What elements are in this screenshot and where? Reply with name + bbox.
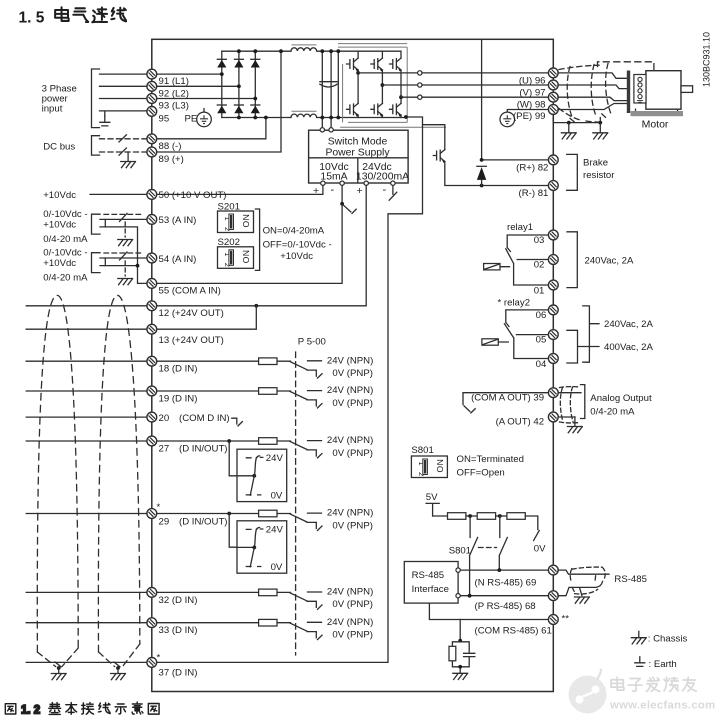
SMPS 10V common wire to terminal 55 <box>152 185 356 283</box>
svg-text:02: 02 <box>534 259 545 270</box>
SMPS 24V common switch stub <box>389 185 397 200</box>
analog input 54 return wire <box>100 264 139 268</box>
motor M <box>627 71 693 131</box>
terminal 29 D IN/OUT <box>147 509 157 519</box>
analog input 53 bracket <box>92 214 101 234</box>
svg-text:: Earth: : Earth <box>649 659 677 670</box>
rectifier leg 2 <box>234 49 243 119</box>
svg-text:06: 06 <box>536 310 547 321</box>
svg-text:53 (A IN): 53 (A IN) <box>159 215 197 226</box>
inverter leg V <box>371 51 384 117</box>
svg-text:*: * <box>157 502 161 513</box>
svg-text:54 (A IN): 54 (A IN) <box>159 254 197 265</box>
terminal 13 +24V OUT <box>147 324 157 334</box>
svg-text:(D IN/OUT): (D IN/OUT) <box>179 516 228 527</box>
terminal 02 relay1 <box>548 255 558 265</box>
svg-text:0/-10Vdc -: 0/-10Vdc - <box>43 248 87 259</box>
terminal 01 relay1 <box>548 280 558 290</box>
wire L1 to rectifier <box>152 72 224 76</box>
svg-text:ON=0/4-20mA: ON=0/4-20mA <box>263 226 325 237</box>
terminal 37 D IN <box>147 658 157 668</box>
PE 99 internal earth circle <box>500 110 553 127</box>
terminal 20 COM D IN <box>147 412 157 422</box>
svg-text:01: 01 <box>534 285 545 296</box>
wire 88 DC- tap <box>152 116 268 139</box>
relay1 common wire 01 <box>506 249 549 285</box>
terminal 06 relay2 <box>548 305 558 315</box>
svg-text:240Vac, 2A: 240Vac, 2A <box>604 319 653 330</box>
svg-text:+: + <box>357 185 363 197</box>
cable shield ground wire <box>553 114 607 139</box>
external wire to 27 <box>26 440 147 442</box>
PE 95 internal earth circle <box>197 109 212 127</box>
terminal 39 COM A OUT <box>548 388 558 398</box>
pullup resistor R3 <box>496 513 526 520</box>
external wire to 37 <box>26 661 147 663</box>
terminal 50 +10V OUT <box>147 190 157 200</box>
S801 termination switch B <box>499 516 507 570</box>
svg-text:(P RS-485) 68: (P RS-485) 68 <box>475 601 536 612</box>
wire 89 DC+ tap <box>152 49 283 152</box>
27 input circuit <box>152 435 373 459</box>
svg-text:(N RS-485) 69: (N RS-485) 69 <box>475 578 537 589</box>
terminal 53 A IN <box>147 215 157 225</box>
5V supply <box>426 492 439 516</box>
analog input 53 signal wire <box>100 213 147 227</box>
svg-text:DC bus: DC bus <box>43 142 75 153</box>
shield drain wires to chassis <box>37 644 139 680</box>
svg-text:240Vac, 2A: 240Vac, 2A <box>585 256 634 267</box>
svg-text:Brake: Brake <box>583 158 608 169</box>
analog input 54 bracket <box>92 253 101 273</box>
svg-text:130/200mA: 130/200mA <box>356 172 409 183</box>
svg-text:33 (D IN): 33 (D IN) <box>159 625 198 636</box>
svg-text:(COM RS-485) 61: (COM RS-485) 61 <box>475 626 552 637</box>
terminal 97 V <box>548 80 558 90</box>
svg-text:5V: 5V <box>426 492 438 503</box>
safe-stop / common rail <box>152 115 423 662</box>
motor wire W <box>558 97 627 100</box>
external wire to 12 <box>26 305 147 307</box>
terminal 91 L1 <box>147 69 157 79</box>
wire L3 to rectifier <box>152 97 257 101</box>
pullup resistor R2 <box>466 513 496 520</box>
svg-text:0/-10Vdc -: 0/-10Vdc - <box>43 209 87 220</box>
terminal 69 N RS-485 <box>548 565 558 575</box>
terminal 42 A OUT <box>548 412 558 422</box>
external wire to 29 <box>26 513 147 515</box>
svg-text:29: 29 <box>159 516 170 527</box>
svg-text:: Chassis: : Chassis <box>648 634 688 645</box>
analog input 53 shield to chassis <box>118 222 133 246</box>
svg-text:89 (+): 89 (+) <box>159 154 184 165</box>
svg-text:(W) 98: (W) 98 <box>517 100 546 111</box>
svg-text:12 (+24V OUT): 12 (+24V OUT) <box>159 308 224 319</box>
svg-text:(D IN/OUT): (D IN/OUT) <box>179 444 228 455</box>
20 COM D IN hook <box>232 418 243 426</box>
pullup resistor R1 <box>433 513 466 520</box>
svg-text:+10Vdc: +10Vdc <box>43 258 76 269</box>
svg-text:0/4-20 mA: 0/4-20 mA <box>43 273 88 284</box>
svg-text:(A OUT) 42: (A OUT) 42 <box>496 417 545 428</box>
27 mode select box <box>227 439 286 502</box>
svg-text:400Vac, 2A: 400Vac, 2A <box>604 342 653 353</box>
relay1 coil K1 <box>484 264 510 270</box>
terminal 95 PE <box>147 107 157 117</box>
analog output shield wires <box>558 385 585 433</box>
external wire to 20 <box>26 416 147 418</box>
svg-text:Power Supply: Power Supply <box>325 147 390 158</box>
0V pulldown branch <box>525 516 546 554</box>
terminal 61 COM RS-485 <box>548 615 558 625</box>
motor wire U <box>558 73 627 78</box>
terminal 68 P RS-485 <box>548 591 558 601</box>
external wire to 13 <box>26 328 147 330</box>
svg-text:32 (D IN): 32 (D IN) <box>159 595 198 606</box>
+10Vdc label and wire <box>43 190 147 201</box>
terminal 96 U <box>548 68 558 78</box>
svg-text:resistor: resistor <box>583 170 615 181</box>
svg-text:+10Vdc: +10Vdc <box>280 251 313 262</box>
svg-text:05: 05 <box>536 335 547 346</box>
svg-text:P 5-00: P 5-00 <box>298 336 326 347</box>
svg-text:(R-) 81: (R-) 81 <box>519 188 549 199</box>
svg-text:S801: S801 <box>411 445 433 456</box>
phase W output <box>401 95 553 99</box>
terminal 03 relay1 <box>548 230 558 240</box>
svg-text:1. 2: 1. 2 <box>21 705 40 717</box>
wire L3 external <box>100 98 148 100</box>
terminal 93 L3 <box>147 94 157 104</box>
svg-text:input: input <box>42 103 63 114</box>
svg-text:(U) 96: (U) 96 <box>519 75 546 86</box>
wire PE external <box>100 111 148 126</box>
svg-text:**: ** <box>562 614 570 625</box>
terminal 32 D IN <box>147 588 157 598</box>
29 input circuit <box>152 508 373 532</box>
relay1 NO wire 02 <box>517 259 548 261</box>
motor cable shield dashes <box>559 64 611 123</box>
svg-text:(R+) 82: (R+) 82 <box>516 162 548 173</box>
18 input circuit <box>152 355 373 379</box>
wire 61 COM <box>429 603 553 619</box>
relay1 NC wire 03 <box>507 235 548 252</box>
svg-text:50 (+10 V OUT): 50 (+10 V OUT) <box>159 190 227 201</box>
svg-text:130BC931.10: 130BC931.10 <box>702 32 712 87</box>
motor wire PE <box>558 104 627 110</box>
svg-text:-: - <box>383 184 387 196</box>
svg-text:0V: 0V <box>534 543 546 554</box>
wire L2 external <box>100 85 148 87</box>
svg-text:92 (L2): 92 (L2) <box>159 88 189 99</box>
DC choke bottom <box>291 111 317 117</box>
S801 termination switch A <box>470 516 478 596</box>
external wire to 18 <box>26 360 147 362</box>
svg-text:Switch Mode: Switch Mode <box>328 136 388 147</box>
EMC shield dashed outline over motor <box>598 62 654 70</box>
external wire to 33 <box>26 622 147 624</box>
svg-text:www.elecfans.com: www.elecfans.com <box>609 700 715 712</box>
12-13 jumper wire <box>152 306 256 329</box>
control cable shield loop B <box>98 295 139 652</box>
terminal 04 relay2 <box>548 354 558 364</box>
external wire to 32 <box>26 591 147 593</box>
brake freewheel diode <box>477 166 486 180</box>
svg-text:18 (D IN): 18 (D IN) <box>159 364 198 375</box>
RS-485 external cable <box>558 567 647 603</box>
wire 39 with hook <box>463 393 548 413</box>
3 phase bracket <box>92 69 100 128</box>
terminal 54 A IN <box>147 253 157 263</box>
svg-text:91 (L1): 91 (L1) <box>159 76 189 87</box>
DC bus wire 88 <box>100 135 148 142</box>
brake + feed from DC bus <box>480 40 554 186</box>
svg-text:(PE) 99: (PE) 99 <box>513 111 546 122</box>
svg-text:55 (COM A IN): 55 (COM A IN) <box>159 286 221 297</box>
terminal 82 R+ <box>548 155 558 165</box>
terminal 89 DC+ <box>147 147 157 157</box>
terminal 27 D IN/OUT <box>147 436 157 446</box>
svg-text:95: 95 <box>159 113 170 124</box>
brake chopper IGBT <box>423 125 554 188</box>
svg-text:PE: PE <box>185 113 198 124</box>
svg-text:03: 03 <box>534 235 545 246</box>
DC+ bus <box>222 50 400 52</box>
svg-text:0/4-20 mA: 0/4-20 mA <box>43 234 88 245</box>
terminal 92 L2 <box>147 81 157 91</box>
relay2 NO wire 05 <box>516 334 548 336</box>
analog input 53 labels <box>43 209 88 245</box>
terminal 18 D IN <box>147 356 157 366</box>
relay2 coil K2 <box>482 339 508 345</box>
19 input circuit <box>152 385 373 409</box>
DC bus bracket <box>92 136 100 155</box>
DC link capacitor <box>320 82 337 87</box>
svg-text:27: 27 <box>159 444 170 455</box>
DC link wire to inverter <box>336 49 340 119</box>
svg-text:Analog Output: Analog Output <box>590 393 652 404</box>
external wire to 19 <box>26 390 147 392</box>
svg-text:(V) 97: (V) 97 <box>519 87 545 98</box>
DC- bus <box>222 117 406 119</box>
svg-text:S801: S801 <box>449 545 471 556</box>
svg-text:13 (+24V OUT): 13 (+24V OUT) <box>159 335 224 346</box>
svg-text:* relay2: * relay2 <box>498 297 531 308</box>
relay1 rating bracket <box>567 232 634 288</box>
svg-text:OFF=Open: OFF=Open <box>457 468 505 479</box>
svg-text:0/4-20 mA: 0/4-20 mA <box>590 406 635 417</box>
terminal 05 relay2 <box>548 330 558 340</box>
svg-text:37 (D IN): 37 (D IN) <box>159 668 198 679</box>
analog input 54 shield to chassis <box>118 261 133 285</box>
svg-text:RS-485: RS-485 <box>412 570 445 581</box>
motor wire V <box>558 85 627 89</box>
relay2 common wire 04 <box>504 324 548 359</box>
svg-text:(COM D IN): (COM D IN) <box>179 413 230 424</box>
DC bus label <box>43 142 75 153</box>
SMPS +10V wire to terminal 50 <box>152 185 323 194</box>
relay2 NC wire 06 <box>506 310 549 327</box>
SMPS feed wires <box>320 49 333 126</box>
svg-text:(COM A OUT) 39: (COM A OUT) 39 <box>471 392 544 403</box>
svg-text:04: 04 <box>536 359 547 370</box>
phase U output <box>358 71 553 75</box>
S801 mechanical link <box>449 545 497 556</box>
relay2 inner rating bracket <box>567 330 654 363</box>
terminal 19 D IN <box>147 386 157 396</box>
rectifier leg 1 <box>217 51 226 117</box>
inverter leg W <box>390 51 403 117</box>
terminal 88 DC- <box>147 134 157 144</box>
SMPS +24V wire to terminal 12 <box>152 185 366 307</box>
phase V output <box>382 83 553 87</box>
svg-text:88 (-): 88 (-) <box>159 141 182 152</box>
terminal 12 +24V OUT <box>147 301 157 311</box>
svg-text:19 (D IN): 19 (D IN) <box>159 393 198 404</box>
wire L1 external <box>100 73 148 75</box>
relay2 outer rating bracket <box>583 306 654 362</box>
S201 DIP <box>218 211 254 233</box>
terminal 33 D IN <box>147 618 157 628</box>
P 5-00 programming group <box>296 336 326 655</box>
svg-text:1. 5: 1. 5 <box>19 10 45 27</box>
terminal 99 PE <box>548 105 558 115</box>
analog input 53 return wire <box>100 227 147 284</box>
svg-text:Interface: Interface <box>412 584 449 595</box>
wire 69 N <box>456 568 553 572</box>
rectifier leg 3 <box>251 49 260 119</box>
DC choke top <box>291 45 317 51</box>
svg-text:OFF=0/-10Vdc -: OFF=0/-10Vdc - <box>263 239 332 250</box>
inverter module frame <box>338 44 446 128</box>
svg-text:relay1: relay1 <box>507 222 533 233</box>
svg-text:+10Vdc: +10Vdc <box>43 190 76 201</box>
svg-text:ON=Terminated: ON=Terminated <box>457 454 524 465</box>
analog input 54 signal wire <box>100 252 147 266</box>
control cable shield loop A <box>37 295 78 652</box>
inverter leg U <box>347 51 360 117</box>
terminal 81 R- <box>548 181 558 191</box>
RC termination network <box>449 620 475 680</box>
32 input circuit <box>152 587 373 611</box>
wire 68 P <box>456 594 553 598</box>
29 mode select box <box>227 512 286 574</box>
S202 DIP <box>218 247 254 268</box>
33 input circuit <box>152 617 373 641</box>
svg-text:93 (L3): 93 (L3) <box>159 101 189 112</box>
svg-text:20: 20 <box>159 413 170 424</box>
wire L2 to rectifier <box>152 84 241 88</box>
terminal 55 COM A IN <box>147 279 157 289</box>
terminal 98 W <box>548 92 558 102</box>
S20x bracket <box>255 209 259 270</box>
svg-text:Motor: Motor <box>642 119 669 131</box>
3 phase input label <box>42 83 77 114</box>
svg-text:RS-485: RS-485 <box>614 574 647 585</box>
DC bus wire 89 <box>100 148 148 168</box>
analog input 54 labels <box>43 248 88 284</box>
svg-text:-: - <box>331 184 335 196</box>
svg-text:+10Vdc: +10Vdc <box>43 220 76 231</box>
